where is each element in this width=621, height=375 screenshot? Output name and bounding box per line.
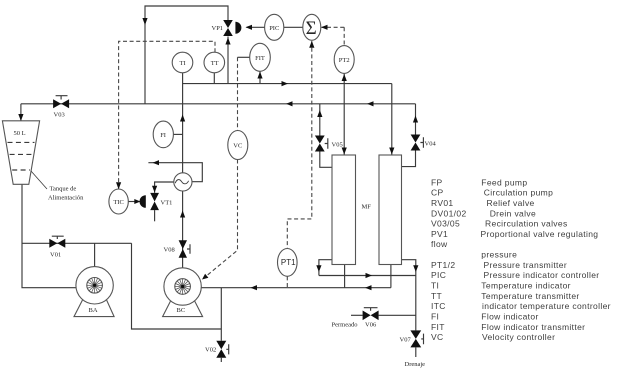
svg-text:Velocity controller: Velocity controller — [482, 332, 555, 342]
wire: recirculation return line y=104 — [21, 101, 416, 106]
svg-text:Permeado: Permeado — [332, 322, 358, 329]
wire: FIT to VC signal — [238, 57, 250, 130]
svg-text:FI: FI — [431, 312, 439, 322]
wire: TT to TIC signal — [116, 41, 215, 189]
svg-text:Circulation pump: Circulation pump — [484, 188, 553, 198]
svg-text:Recirculation valves: Recirculation valves — [485, 219, 568, 229]
svg-text:Relief valve: Relief valve — [487, 198, 535, 208]
instrument FI — [153, 121, 173, 148]
svg-text:pressure: pressure — [481, 250, 517, 260]
svg-text:FI: FI — [160, 132, 166, 139]
svg-text:MF: MF — [362, 204, 372, 211]
svg-text:CP: CP — [431, 188, 444, 198]
svg-text:DV01/02: DV01/02 — [431, 208, 467, 218]
actuator of VT1 (diaphragm) — [140, 195, 146, 208]
svg-text:50 L: 50 L — [14, 130, 26, 137]
valve VP1 (proportional) — [212, 20, 242, 36]
tank label — [31, 171, 84, 202]
wire: VP1 riser from feed line — [225, 37, 230, 84]
svg-text:V05: V05 — [332, 142, 343, 149]
svg-text:BA: BA — [89, 307, 98, 314]
svg-text:TT: TT — [431, 291, 442, 301]
wire: feed line y=84 — [183, 81, 392, 86]
wire: V05 riser — [317, 104, 332, 168]
svg-text:Temperature indicator: Temperature indicator — [481, 281, 571, 291]
wire: PIC to sum — [284, 26, 303, 28]
wire: right column side port down — [402, 260, 419, 276]
svg-text:V06: V06 — [365, 322, 377, 329]
wire: bottom link line — [132, 243, 222, 329]
svg-text:TI: TI — [180, 60, 186, 67]
tank (Tanque de Alimentacion) — [2, 121, 39, 185]
wire: V04 riser — [402, 104, 419, 167]
instrument TI — [172, 52, 193, 73]
svg-text:Pressure transmitter: Pressure transmitter — [484, 260, 568, 270]
svg-text:PIC: PIC — [269, 25, 279, 32]
wire: permeate manifold y=275.5 — [319, 273, 416, 278]
instrument PT2 — [334, 46, 354, 74]
wire: VC to pump BC signal — [202, 160, 238, 280]
instrument PT1 — [278, 249, 298, 277]
svg-text:V04: V04 — [425, 141, 437, 148]
valve V08 — [164, 240, 191, 257]
pump BA — [74, 267, 114, 317]
instrument TIC — [109, 189, 128, 214]
wire: PIC to VP1 actuator — [246, 25, 265, 30]
svg-text:V03/05: V03/05 — [431, 219, 460, 229]
svg-text:V02: V02 — [205, 347, 216, 354]
svg-text:VC: VC — [431, 332, 444, 342]
svg-text:TT: TT — [211, 60, 219, 67]
legend — [431, 177, 611, 342]
svg-text:PV1: PV1 — [431, 229, 448, 239]
svg-text:PT1: PT1 — [281, 258, 296, 267]
wire: pump BA top stem — [94, 243, 96, 267]
svg-text:TI: TI — [431, 281, 439, 291]
svg-text:VP1: VP1 — [212, 25, 224, 32]
svg-text:VT1: VT1 — [161, 200, 173, 207]
wire: feed drop to right column — [389, 84, 394, 155]
instrument TT — [204, 52, 225, 73]
wire: pump BC discharge riser — [180, 73, 185, 268]
wire: TIC to VT1 actuator — [128, 199, 140, 204]
wire: heater bypass loop — [148, 160, 202, 182]
wire: PT1 tap — [286, 276, 288, 287]
valve V03 — [53, 96, 69, 119]
svg-text:VC: VC — [233, 143, 242, 150]
svg-text:Proportional valve regulating: Proportional valve regulating — [481, 229, 599, 239]
valve V07 — [400, 330, 424, 347]
wire: retentate line y=288 to pump BC — [201, 285, 391, 290]
svg-text:FP: FP — [431, 177, 443, 187]
svg-text:Drenaje: Drenaje — [405, 361, 426, 368]
svg-text:Pressure indicator controller: Pressure indicator controller — [484, 270, 600, 280]
svg-text:Σ: Σ — [306, 18, 317, 39]
wire: permeate outlet through V06 — [351, 314, 416, 316]
svg-text:V07: V07 — [400, 337, 412, 344]
membrane column right — [379, 155, 402, 265]
pump BC — [163, 268, 203, 317]
svg-text:Drein valve: Drein valve — [490, 208, 536, 218]
wire: tank outlet to pump BA — [22, 184, 77, 287]
svg-text:PT1/2: PT1/2 — [431, 260, 455, 270]
wire: left column side port down — [316, 260, 332, 276]
valve V05 — [315, 136, 343, 152]
instrument VC — [228, 131, 248, 160]
wire: VT1 top from heater — [152, 182, 174, 193]
svg-text:Alimentación: Alimentación — [48, 195, 84, 202]
svg-text:FIT: FIT — [255, 55, 265, 62]
svg-text:flow: flow — [431, 239, 448, 249]
wire: TT stem — [213, 73, 215, 84]
valve V02 — [205, 341, 229, 358]
svg-text:PIC: PIC — [431, 270, 446, 280]
heater circle — [174, 173, 192, 191]
wire: permeate drop to V06/V07 — [415, 276, 417, 358]
svg-text:Feed pump: Feed pump — [481, 177, 527, 187]
svg-text:PT2: PT2 — [339, 57, 350, 64]
wire: feed drop to left column — [342, 84, 347, 155]
svg-text:Temperature transmitter: Temperature transmitter — [481, 291, 579, 301]
wire: right column bottom tap — [390, 265, 392, 288]
svg-text:TIC: TIC — [113, 199, 123, 206]
valve V04 — [411, 135, 437, 151]
svg-text:V03: V03 — [54, 112, 65, 119]
svg-text:BC: BC — [177, 307, 186, 314]
wire: return drop into tank — [18, 104, 23, 121]
valve V06 — [363, 308, 379, 329]
wire: PT2 to sum signal — [321, 25, 344, 46]
valve V01 — [49, 236, 65, 258]
wire: FI tap — [173, 133, 182, 135]
wire: V02 drain branch — [220, 288, 222, 362]
svg-text:Flow indicator: Flow indicator — [481, 312, 538, 322]
svg-text:Flow indicator transmitter: Flow indicator transmitter — [481, 322, 585, 332]
summator — [303, 14, 321, 40]
instrument FIT — [250, 43, 271, 71]
wire: left column bottom tap — [344, 265, 346, 288]
wire: VT1 bottom stub — [154, 210, 156, 221]
membrane column left — [332, 155, 356, 265]
svg-text:V08: V08 — [164, 247, 175, 254]
wire: V01 line y=243 — [22, 242, 132, 244]
instrument PIC — [265, 14, 284, 40]
svg-text:ITC: ITC — [431, 301, 446, 311]
wire: VP1 bypass top line to return line — [142, 6, 228, 104]
wire: PT1 to sum signal — [287, 41, 314, 249]
svg-text:FIT: FIT — [431, 322, 445, 332]
svg-text:Tanque de: Tanque de — [50, 186, 77, 193]
svg-text:RV01: RV01 — [431, 198, 454, 208]
svg-text:V01: V01 — [50, 252, 61, 259]
wire: FIT tap — [257, 71, 262, 84]
valve VT1 — [150, 193, 172, 210]
wire: PT2 stem — [342, 73, 347, 83]
svg-text:indicator temperature controll: indicator temperature controller — [482, 301, 611, 311]
